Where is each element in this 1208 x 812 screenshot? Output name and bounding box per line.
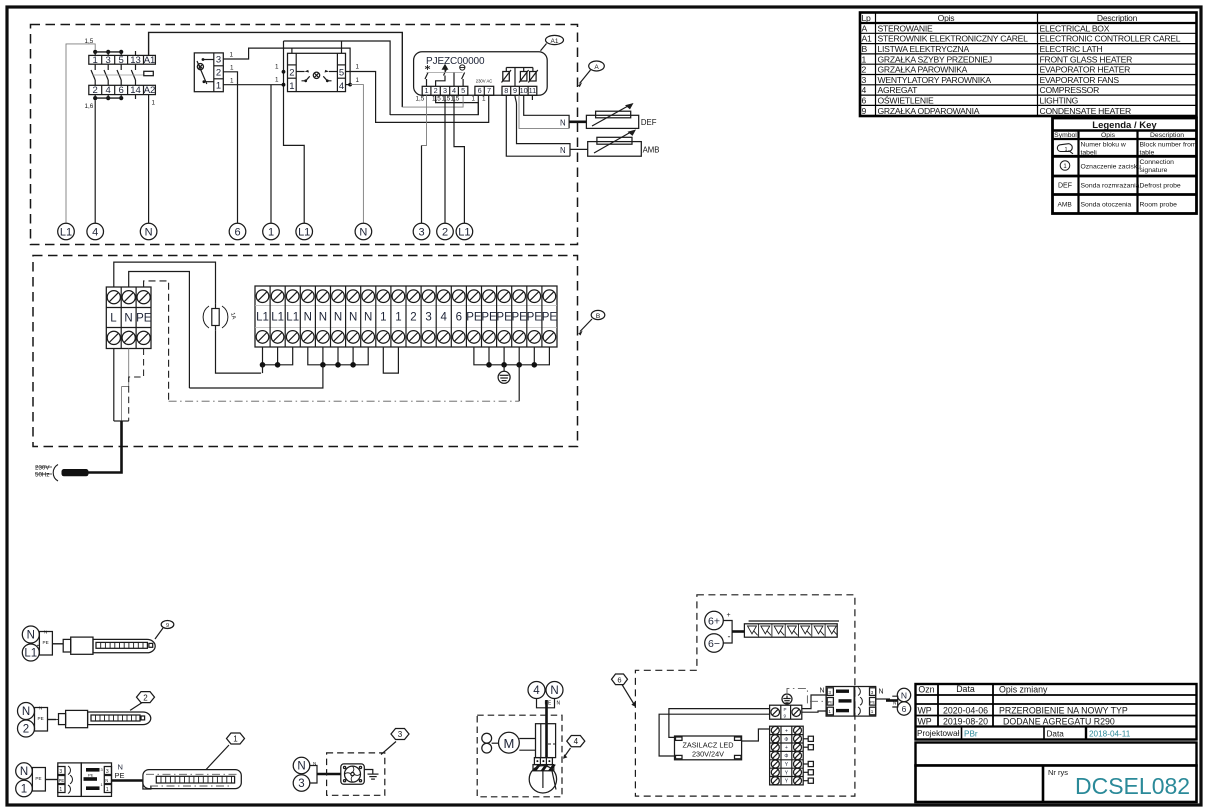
svg-text:N: N [304,312,312,324]
svg-text:LISTWA ELEKTRYCZNA: LISTWA ELEKTRYCZNA [878,44,970,54]
svg-text:L1: L1 [256,312,269,324]
svg-text:table: table [1140,150,1155,157]
relay internal contact [296,70,337,82]
svg-text:PJEZC00000: PJEZC00000 [426,56,485,67]
svg-text:1: 1 [828,709,831,714]
output connector male [826,687,854,717]
svg-text:6−: 6− [708,638,720,650]
svg-text:Numer bloku w: Numer bloku w [1081,142,1126,149]
junction dots feeding poles 1 3 5 [93,50,123,56]
svg-text:1: 1 [268,227,274,239]
wire A1 top run [149,32,403,107]
svg-text:N: N [20,766,28,778]
drawing number box [916,766,1197,803]
svg-text:N: N [879,689,884,696]
relay 4 wire to circle N [346,84,351,86]
svg-text:Data: Data [1047,729,1065,738]
node circle N [546,682,563,699]
svg-text:1: 1 [230,64,234,71]
svg-text:STEROWANIE: STEROWANIE [878,23,933,33]
legend row 1: block number symbol [1057,144,1073,154]
svg-text:L1: L1 [286,312,299,324]
relay contact marks above terminals [425,69,465,86]
svg-text:PE: PE [512,312,528,324]
svg-text:N: N [334,312,342,324]
svg-text:N: N [22,706,30,718]
mains voltage label [35,465,52,479]
compressor dashed box [477,715,562,797]
svg-text:Sonda rozmrażania: Sonda rozmrażania [1081,183,1140,190]
svg-text:AGREGAT: AGREGAT [878,85,919,95]
svg-text:N: N [145,227,153,239]
wire drop to circle 1 [270,85,272,224]
svg-text:N: N [105,778,108,783]
electrical box A dashed border [31,25,578,245]
svg-text:P: P [784,707,787,712]
svg-text:230V/24V: 230V/24V [692,750,724,759]
svg-text:WP: WP [918,705,932,715]
node circle 2 [18,720,35,737]
svg-text:1,6: 1,6 [85,103,94,110]
LED strip [744,621,839,637]
fan blades [482,733,499,753]
svg-text:Data: Data [956,684,975,694]
svg-text:1: 1 [230,77,234,84]
terminal load labels [416,96,487,103]
svg-text:L: L [110,313,117,325]
svg-text:1,5: 1,5 [416,96,425,103]
svg-text:4: 4 [533,685,540,697]
svg-text:L1: L1 [60,227,72,239]
node circle N [22,626,39,643]
svg-text:N: N [820,688,825,695]
wire t3 to circle 2 [444,95,446,223]
svg-text:1: 1 [356,77,360,84]
svg-text:3: 3 [106,769,109,775]
svg-text:ELECTRICAL BOX: ELECTRICAL BOX [1040,23,1110,33]
svg-text:Block number from: Block number from [1140,142,1197,149]
svg-text:A1: A1 [144,55,156,66]
svg-text:N: N [557,701,561,707]
oval label A1 [541,35,564,50]
svg-text:2: 2 [216,68,221,79]
svg-text:Description: Description [1097,13,1138,23]
svg-text:1: 1 [216,81,221,92]
svg-text:N: N [44,630,47,635]
svg-text:A2: A2 [144,85,156,96]
switch contacts and lamp [197,58,214,84]
svg-text:6+: 6+ [708,615,720,627]
legend table frame [1053,118,1197,214]
earth symbol below PE group [498,365,510,384]
wire N down-feed [129,272,190,389]
svg-text:B: B [862,44,868,54]
svg-text:8: 8 [504,86,508,95]
svg-text:tabeli: tabeli [1081,150,1098,157]
fans dashed box [327,753,385,795]
svg-text:PRZEROBIENIE NA NOWY TYP: PRZEROBIENIE NA NOWY TYP [999,705,1128,715]
svg-text:PE: PE [542,312,558,324]
svg-text:2: 2 [23,724,29,736]
svg-text:1: 1 [59,787,62,793]
svg-text:9: 9 [166,623,169,629]
svg-text:2: 2 [434,86,438,95]
controller terminals 1-5 [422,86,468,95]
PE jumper group [474,347,550,368]
svg-text:+: + [785,745,788,751]
revision table [916,684,1197,740]
node circle 6+ [705,611,724,630]
svg-text:4: 4 [106,85,111,96]
main terminal strip [255,286,557,347]
connector block [32,768,45,792]
svg-text:6: 6 [456,312,462,324]
empty wide box [916,743,1197,766]
contactor poles [91,51,153,99]
svg-text:STEROWNIK ELEKTRONICZNY CAREL: STEROWNIK ELEKTRONICZNY CAREL [878,34,1029,44]
svg-text:Description: Description [1150,132,1184,139]
motor M [499,732,520,753]
wire connector to node circles [876,698,890,700]
svg-text:5: 5 [461,86,465,95]
svg-text:1: 1 [472,96,476,103]
svg-text:2018-04-11: 2018-04-11 [1089,729,1131,738]
node circle N [897,688,910,701]
controller terminals 6-7 [475,86,494,95]
svg-text:4: 4 [574,737,579,746]
compressor gasket hatch [533,765,556,771]
AMB probe [588,130,660,157]
node circle 6 [897,702,910,715]
svg-text:2019-08-20: 2019-08-20 [943,716,988,726]
wire contactor output to circle 4 [94,100,96,223]
relay 5 wire to terminal 7 [346,72,489,123]
svg-text:PE: PE [88,772,94,777]
svg-text:N: N [901,690,907,700]
svg-text:N: N [893,701,896,706]
mains feed thick wire [89,421,122,473]
fuse 1A [203,304,237,331]
svg-text:1: 1 [275,64,279,71]
DEF probe [586,103,656,128]
connector bracket [310,766,317,784]
svg-text:1: 1 [152,100,156,107]
svg-text:Φ: Φ [784,737,788,743]
svg-text:230V AC: 230V AC [476,79,493,84]
PE drop to dash-dot run [518,365,520,401]
svg-text:10: 10 [520,86,528,95]
svg-text:4: 4 [440,312,447,324]
svg-text:Legenda / Key: Legenda / Key [1092,120,1157,131]
svg-text:3: 3 [216,55,221,66]
svg-text:3: 3 [298,778,304,790]
svg-text:1: 1 [275,77,279,84]
svg-text:1: 1 [356,64,360,71]
relay coil connections up [291,48,293,53]
terminal 11 stub [531,95,533,100]
svg-text:5: 5 [339,68,344,79]
svg-text:1: 1 [482,96,486,103]
svg-text:ELECTRIC LATH: ELECTRIC LATH [1040,44,1103,54]
compressor feed wire [545,700,548,758]
svg-text:Lp: Lp [862,13,872,23]
svg-text:PE: PE [828,700,834,705]
svg-text:Opis: Opis [1101,132,1116,139]
svg-text:3: 3 [871,690,874,695]
wires from mains block to connector [802,695,826,709]
svg-text:ZASILACZ LED: ZASILACZ LED [682,741,733,750]
svg-text:1,5: 1,5 [432,96,441,103]
svg-text:N: N [39,706,42,711]
start capacitor box [536,724,556,758]
svg-text:2: 2 [862,65,867,75]
glass heater element [143,770,241,789]
svg-text:A1: A1 [862,34,872,44]
svg-text:WENTYLATORY PAROWNIKA: WENTYLATORY PAROWNIKA [878,75,992,85]
svg-text:L1: L1 [298,227,310,239]
component table frame [860,13,1197,117]
wires supply to power supply [669,709,770,738]
svg-text:1: 1 [289,81,294,92]
switch S with lamp [194,53,223,92]
relay (evaporator fan thermostat) [288,53,346,91]
svg-text:7: 7 [487,86,491,95]
mains plug [53,465,88,482]
svg-text:6: 6 [119,85,124,96]
svg-text:6: 6 [862,96,867,106]
svg-text:4: 4 [339,81,344,92]
L N PE screws [107,291,150,345]
svg-text:N: N [364,312,372,324]
bracket wire to terminal 6 [390,95,478,114]
svg-text:1: 1 [395,312,401,324]
top wire over relay [284,41,391,115]
heater element tube [88,712,151,725]
svg-text:Symbol: Symbol [1054,132,1077,139]
connector bracket [537,699,555,708]
heater plug [63,639,70,652]
svg-text:N: N [349,312,357,324]
svg-text:GRZAŁKA SZYBY PRZEDNIEJ: GRZAŁKA SZYBY PRZEDNIEJ [878,54,992,64]
svg-text:PE: PE [59,778,65,783]
legend key table [1053,118,1197,214]
svg-text:N: N [297,761,305,773]
node circle 4 [528,682,545,699]
svg-text:6: 6 [234,227,240,239]
svg-text:1,5: 1,5 [442,96,451,103]
LED power supply [675,736,742,760]
compressor body [529,766,556,793]
svg-text:A: A [862,23,868,33]
svg-text:230V: 230V [35,465,50,472]
svg-text:PE: PE [35,776,41,781]
svg-text:EVAPORATOR HEATER: EVAPORATOR HEATER [1040,65,1131,75]
svg-text:PE: PE [527,312,543,324]
incoming mains cable [114,349,144,422]
svg-text:PBr: PBr [964,729,978,738]
svg-text:DEF: DEF [1058,183,1072,190]
svg-text:3: 3 [425,312,431,324]
supply terminal block L N PE [106,287,151,349]
svg-text:LIGHTING: LIGHTING [1040,96,1079,106]
svg-text:FRONT GLASS HEATER: FRONT GLASS HEATER [1040,54,1133,64]
svg-text:6: 6 [478,86,482,95]
male connector [81,763,111,797]
svg-text:N: N [560,146,566,155]
controller terminals 8-11 [502,86,537,95]
node circle N [293,757,310,774]
svg-text:Nr rys: Nr rys [1048,768,1068,777]
svg-text:Sonda otoczenia: Sonda otoczenia [1081,202,1132,209]
svg-text:DEF: DEF [641,118,657,127]
wire power supply to 24V block [742,729,770,741]
svg-text:9: 9 [862,106,867,116]
svg-text:Opis: Opis [938,13,955,23]
svg-text:3: 3 [862,75,867,85]
svg-text:Room probe: Room probe [1140,202,1178,209]
svg-text:Connection: Connection [1140,159,1175,166]
hexagon label 6 [612,674,628,685]
earth symbol [782,688,807,705]
wire t2 jumper [436,95,479,114]
hexagon label 3 [381,742,396,755]
svg-text:4: 4 [452,86,456,95]
svg-text:L1: L1 [458,227,470,239]
wire L1 feed to contactor [66,44,95,223]
svg-text:N: N [124,313,132,325]
female connector [58,763,82,797]
legend row 2: terminal number symbol [1060,161,1070,171]
svg-text:3: 3 [418,227,424,239]
svg-text:1: 1 [21,784,27,796]
terminal block [534,758,552,765]
svg-text:PE: PE [43,640,49,645]
wire A2 to circle N [148,95,150,224]
motor wires [519,738,535,740]
fan earth [364,770,378,780]
wire switch 1 to relay 1 [223,84,283,86]
node circle 3 [293,775,310,792]
svg-text:PE: PE [136,313,152,325]
wire to female plug [45,779,57,781]
svg-text:B: B [596,313,600,320]
svg-text:14: 14 [130,85,141,96]
heater element tube [93,639,155,652]
svg-text:PE: PE [496,312,512,324]
svg-text:L1: L1 [271,312,284,324]
svg-text:3: 3 [59,769,62,775]
title block tables [916,684,1197,802]
svg-text:4: 4 [92,227,98,239]
svg-text:3: 3 [443,86,447,95]
svg-text:+: + [785,728,788,734]
junction dots below poles 2 4 6 [93,95,123,101]
svg-text:EVAPORATOR FANS: EVAPORATOR FANS [1040,75,1120,85]
svg-text:N: N [550,685,558,697]
node circles row [58,223,473,240]
svg-text:DCSEL082: DCSEL082 [1075,773,1190,799]
svg-text:50Hz: 50Hz [35,472,49,479]
svg-text:Φ: Φ [784,754,788,760]
svg-text:1: 1 [862,54,867,64]
contactor coil A1A2 [144,71,154,75]
svg-text:A1: A1 [551,38,559,45]
gray feed wire A1 to t5 [402,95,463,107]
contactor K1 [89,55,156,94]
svg-text:N: N [560,119,566,128]
connector block [35,708,48,732]
wire to heater [112,779,143,782]
hexagon label 1 [206,745,229,770]
svg-text:1: 1 [1065,147,1068,153]
wire switch 2 to circle 6 [223,72,237,223]
svg-text:9: 9 [513,86,517,95]
wire to plug [52,643,63,645]
svg-text:1: 1 [424,86,428,95]
svg-text:AMB: AMB [1058,202,1073,209]
svg-text:PE: PE [38,716,44,721]
table header row [862,13,1138,23]
vertical feed wire with junctions [284,41,305,223]
AMB probe wiring [506,95,587,156]
wire switch 3 to relay coil line [223,48,350,85]
1-1 jumper link [383,347,398,373]
electric strip B dashed border [33,256,578,447]
PE dashed feed [144,281,169,401]
svg-text:2020-04-06: 2020-04-06 [943,705,988,715]
svg-text:+: + [727,612,731,619]
output connector female [855,687,876,717]
svg-text:GRZAŁKA PAROWNIKA: GRZAŁKA PAROWNIKA [878,65,968,75]
svg-text:N: N [359,227,367,239]
svg-text:1: 1 [106,787,109,793]
24V LED terminal block [770,726,814,785]
node circle N [16,763,33,780]
svg-text:GRZAŁKA ODPAROWANIA: GRZAŁKA ODPAROWANIA [878,106,980,116]
svg-text:1: 1 [380,312,386,324]
N jumper group [189,347,368,388]
svg-text:CONDENSATE HEATER: CONDENSATE HEATER [1040,106,1131,116]
svg-text:2: 2 [410,312,416,324]
lighting dashed outline [635,595,855,796]
svg-text:ELECTRONIC CONTROLLER CAREL: ELECTRONIC CONTROLLER CAREL [1040,34,1181,44]
svg-text:Oznaczenie zacisku: Oznaczenie zacisku [1081,164,1142,171]
wire L to fuse [114,262,216,304]
svg-text:PE: PE [115,771,125,780]
PE dash-dot run [169,400,520,402]
oval label B [578,310,605,335]
svg-text:COMPRESSOR: COMPRESSOR [1040,85,1100,95]
strip labels [256,312,557,324]
node circle 6- [705,634,724,653]
svg-text:Ozn: Ozn [918,685,934,695]
L1 jumper group [260,347,293,373]
svg-text:PE: PE [870,700,876,705]
svg-text:11: 11 [529,86,537,95]
svg-text:1,5: 1,5 [451,96,460,103]
wire to fan [317,773,341,776]
svg-text:N: N [27,630,35,642]
svg-text:N: N [319,312,327,324]
svg-text:AMB: AMB [643,146,660,155]
connector block [39,632,52,656]
hexagon label 2 [130,703,142,711]
svg-text:Projektował: Projektował [917,729,960,738]
svg-text:PE: PE [466,312,482,324]
svg-text:1: 1 [871,709,874,714]
svg-text:2: 2 [143,693,148,702]
svg-text:DODANE AGREGATU R290: DODANE AGREGATU R290 [1003,716,1115,726]
